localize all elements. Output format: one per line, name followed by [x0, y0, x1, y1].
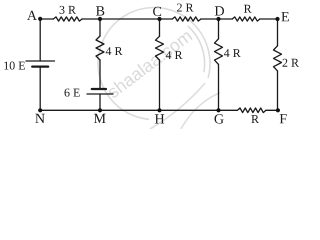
value 10 E — [4, 62, 25, 70]
label B — [96, 6, 104, 15]
wire D down to 4R — [218, 19, 220, 39]
watermark inner arc — [188, 26, 205, 72]
wire R to F — [266, 109, 278, 111]
wire B down to 4R — [99, 19, 101, 36]
wire 4R to G — [218, 64, 220, 110]
battery 6E short plate — [92, 88, 106, 90]
node M — [98, 108, 102, 112]
resistor R bottom — [237, 108, 266, 113]
wire C to 2R — [160, 18, 173, 20]
value 4 R branch C — [166, 51, 183, 59]
battery 6E long plate — [87, 93, 113, 95]
label A — [27, 11, 37, 20]
label F — [280, 114, 287, 123]
label E — [281, 12, 289, 21]
watermark long arc — [150, 83, 205, 129]
value 6 E — [65, 89, 80, 97]
resistor 4R branch C — [156, 36, 164, 60]
resistor 4R branch D — [215, 39, 223, 65]
wire A down to battery — [39, 19, 41, 61]
resistor 4R branch B — [96, 36, 104, 60]
value 2 R top — [177, 4, 194, 12]
value R bottom — [251, 115, 259, 123]
node D — [216, 17, 220, 21]
label G — [215, 114, 224, 123]
resistor 2R branch E — [274, 46, 282, 71]
node H — [157, 108, 161, 112]
label H — [155, 114, 164, 123]
watermark swoosh — [181, 93, 220, 130]
watermark text shaalaa.com — [106, 29, 193, 99]
node A — [38, 17, 42, 21]
wire 2R to D — [201, 18, 219, 20]
wire E down to 2R — [277, 19, 279, 46]
node F — [276, 108, 280, 112]
wire R to E — [260, 18, 278, 20]
resistor R top — [232, 17, 259, 21]
battery 10E short plate — [32, 65, 48, 67]
wire C down to 4R — [159, 19, 161, 36]
node B — [98, 17, 102, 21]
label D — [215, 6, 224, 15]
label C — [153, 7, 161, 16]
value 3 R — [60, 6, 76, 14]
value R top — [244, 5, 252, 13]
value 2 R branch E — [283, 59, 300, 67]
resistor 3R — [53, 17, 82, 21]
resistor 2R top — [172, 17, 201, 21]
node E — [275, 17, 279, 21]
value 4 R branch B — [106, 47, 123, 55]
watermark circle — [98, 8, 210, 120]
wire A to 3R — [40, 18, 53, 20]
wire 3R to B — [82, 18, 100, 20]
wire 6E to M — [99, 94, 101, 110]
wire D to R — [219, 18, 233, 20]
wire battery to N — [39, 67, 41, 111]
wire 4R to H — [159, 60, 161, 110]
wire G to R bottom — [219, 109, 238, 111]
wire B to C — [100, 18, 160, 20]
label M — [94, 114, 106, 123]
battery 10E long plate — [26, 60, 55, 62]
node C — [157, 17, 161, 21]
wire 2R to F — [277, 71, 279, 110]
wire 4R to 6E battery — [99, 60, 101, 89]
label N — [35, 114, 44, 123]
value 4 R branch D — [224, 49, 241, 57]
wire N to M to H to G — [40, 109, 218, 111]
node N — [38, 108, 42, 112]
node G — [216, 108, 220, 112]
